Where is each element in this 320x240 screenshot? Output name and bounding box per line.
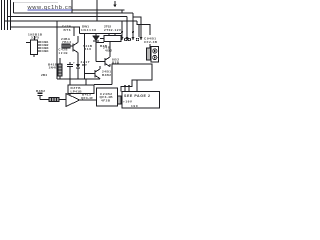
svg-text:C42B: C42B (59, 48, 68, 52)
svg-text:LP41B: LP41B (71, 90, 83, 94)
svg-text:QF3-4F: QF3-4F (81, 96, 93, 100)
svg-text:B16: B16 (84, 47, 91, 51)
svg-text:124B: 124B (59, 51, 68, 55)
svg-text:19C: 19C (131, 104, 139, 108)
svg-text:3JF5: 3JF5 (31, 36, 39, 40)
svg-text:4B2: 4B2 (105, 49, 112, 53)
svg-text:B4B2: B4B2 (36, 89, 45, 93)
svg-text:+19V: +19V (123, 100, 133, 104)
svg-text:2B4: 2B4 (41, 73, 47, 77)
svg-text:+: + (73, 61, 75, 65)
svg-text:2T02-12V: 2T02-12V (104, 28, 122, 32)
svg-text:CF2-4B: CF2-4B (144, 40, 158, 44)
svg-text:B4B2: B4B2 (102, 73, 111, 77)
svg-text:4F2B: 4F2B (101, 99, 111, 103)
svg-text:1N4148: 1N4148 (81, 28, 96, 32)
svg-text:B2B: B2B (112, 61, 120, 65)
svg-text:7B14: 7B14 (62, 40, 71, 44)
svg-text:SEE PAGE 2: SEE PAGE 2 (124, 94, 150, 98)
svg-text:C2B4: C2B4 (42, 49, 49, 53)
svg-text:BT6: BT6 (64, 28, 71, 32)
svg-text:1N4B: 1N4B (49, 66, 59, 70)
